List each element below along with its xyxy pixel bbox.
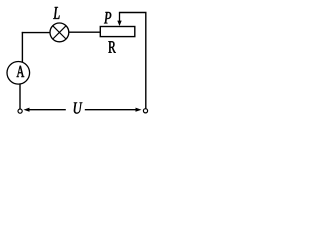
U dimension line left segment with left arrowhead bbox=[29, 109, 66, 111]
U dimension line right segment with right arrowhead bbox=[85, 109, 137, 111]
voltage label U bbox=[74, 103, 83, 114]
rheostat R body bbox=[100, 27, 135, 37]
wire: top-left horizontal from corner to lamp bbox=[22, 32, 50, 34]
lamp cross stroke 2 bbox=[53, 26, 66, 39]
lamp L circle bbox=[50, 23, 69, 42]
wire: wiper horizontal to top-right corner bbox=[119, 12, 147, 14]
wire: right vertical down to right terminal bbox=[145, 13, 147, 109]
ammeter A body bbox=[7, 62, 30, 85]
wire: left vertical from corner down to ammeter bbox=[21, 32, 23, 62]
ammeter label A bbox=[17, 66, 25, 77]
wiper label P bbox=[104, 12, 111, 23]
lamp label L bbox=[53, 7, 59, 19]
right terminal node bbox=[143, 109, 147, 113]
lamp cross stroke 1 bbox=[53, 26, 66, 39]
wire: ammeter bottom to left terminal bbox=[19, 84, 21, 109]
left terminal node bbox=[18, 109, 22, 113]
rheostat label R bbox=[108, 41, 115, 52]
wire: lamp to rheostat bbox=[69, 31, 101, 33]
wiper arrow P (vertical shaft with down arrowhead) bbox=[119, 13, 121, 22]
